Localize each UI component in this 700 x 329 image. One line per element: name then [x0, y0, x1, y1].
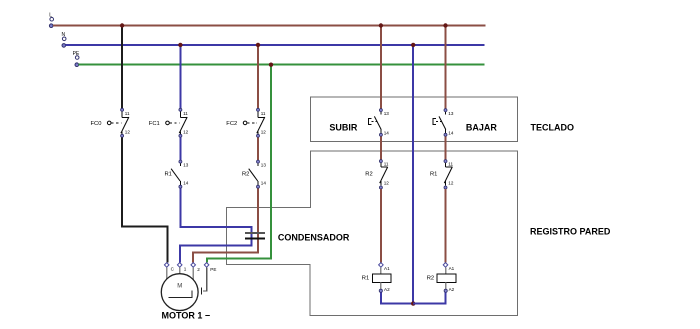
box TECLADO — [311, 97, 575, 141]
svg-text:11: 11 — [384, 161, 389, 166]
pin 11 contact R1 — [444, 160, 447, 163]
wire PE column to motor PE terminal — [207, 65, 271, 263]
svg-text:A1: A1 — [384, 266, 390, 271]
wire N return column — [412, 45, 414, 304]
svg-text:FC1: FC1 — [149, 121, 160, 127]
pin 12 contact R2 — [379, 186, 382, 189]
svg-text:R2: R2 — [427, 276, 434, 282]
svg-text:R2: R2 — [365, 172, 372, 178]
wire SUBIR to contact R2 (NC) — [380, 137, 382, 161]
svg-text:11: 11 — [261, 111, 266, 116]
node junction N / FC1 column — [178, 43, 182, 47]
svg-text:R1: R1 — [362, 276, 369, 282]
motor M1 — [161, 274, 210, 321]
wire N bus — [66, 44, 485, 46]
terminal PE — [73, 51, 80, 67]
pin 12 FC2 — [257, 134, 260, 137]
capacitor plates — [245, 232, 350, 242]
svg-text:12: 12 — [125, 129, 131, 134]
pushbutton BAJAR — [433, 109, 454, 137]
svg-text:13: 13 — [261, 163, 267, 168]
contact R1 (NO) — [165, 160, 189, 188]
limit switch FC2 — [226, 108, 266, 137]
svg-text:FC0: FC0 — [91, 121, 102, 127]
svg-text:R2: R2 — [242, 172, 249, 178]
coil R2 — [427, 263, 456, 293]
pin 11 contact R2 — [379, 160, 382, 163]
svg-text:12: 12 — [183, 129, 189, 134]
node junction L / FC0 column — [120, 23, 124, 27]
svg-text:CONDENSADOR: CONDENSADOR — [278, 232, 350, 242]
pin 12 contact R1 — [444, 186, 447, 189]
svg-text:14: 14 — [261, 180, 267, 185]
svg-text:A1: A1 — [449, 266, 455, 271]
wire BAJAR to contact R1 (NC) — [445, 137, 447, 161]
svg-text:R1: R1 — [165, 172, 172, 178]
limit switch FC1 — [149, 108, 189, 137]
wire L to pushbutton BAJAR — [445, 26, 447, 109]
wire coil R1 to neutral return — [381, 293, 413, 304]
contact R2 (NO) — [242, 160, 266, 188]
svg-text:TECLADO: TECLADO — [531, 122, 575, 132]
pin 14 R2 — [257, 185, 260, 188]
pin 12 FC0 — [121, 134, 124, 137]
motor M1 leads — [167, 267, 207, 294]
svg-text:14: 14 — [448, 130, 454, 135]
wire dark red column from N to FC2 — [257, 45, 259, 108]
svg-text:REGISTRO PARED: REGISTRO PARED — [530, 226, 611, 236]
svg-text:A2: A2 — [449, 287, 455, 292]
wire L bus — [53, 25, 486, 27]
node junction N / FC2 column — [256, 43, 260, 47]
svg-text:11: 11 — [125, 111, 130, 116]
svg-text:11: 11 — [183, 111, 188, 116]
motor M1 terminals — [164, 263, 216, 273]
svg-text:13: 13 — [384, 111, 390, 116]
wire L to pushbutton SUBIR — [380, 26, 382, 109]
pin 11 FC0 — [121, 108, 124, 111]
node junction L / SUBIR column — [379, 23, 383, 27]
svg-text:MOTOR 1 −: MOTOR 1 − — [162, 310, 211, 320]
pin 11 FC2 — [257, 108, 260, 111]
wire coil R2 to neutral return — [413, 293, 446, 304]
terminal L — [49, 13, 53, 28]
svg-text:12: 12 — [384, 180, 390, 185]
wire R1 to capacitor and motor terminal 1 — [180, 188, 251, 262]
wire black column from L to FC0 — [121, 26, 123, 109]
svg-text:SUBIR: SUBIR — [329, 123, 358, 133]
limit switch FC0 — [91, 108, 131, 137]
pin 12 FC1 — [179, 134, 182, 137]
svg-text:M: M — [177, 283, 182, 289]
pin 13 BAJAR — [444, 109, 447, 112]
wire FC0 to motor terminal C — [122, 138, 167, 263]
box REGISTRO PARED (with left notch around condensador) — [227, 151, 611, 316]
pin 13 R2 — [257, 160, 260, 163]
wire contact R2 to coil R1 — [380, 189, 382, 263]
pin 11 FC1 — [179, 108, 182, 111]
svg-text:BAJAR: BAJAR — [466, 123, 498, 133]
svg-text:PE: PE — [210, 267, 216, 272]
svg-text:FC2: FC2 — [226, 121, 237, 127]
pin 13 R1 — [179, 160, 182, 163]
svg-text:11: 11 — [448, 161, 453, 166]
pushbutton SUBIR — [368, 109, 389, 137]
svg-text:1: 1 — [184, 267, 187, 272]
wire blue column from N to FC1 — [179, 45, 181, 108]
svg-text:12: 12 — [448, 180, 454, 185]
node junction L / BAJAR column — [443, 23, 447, 27]
svg-text:R1: R1 — [430, 172, 437, 178]
wire PE bus — [79, 64, 485, 66]
svg-text:14: 14 — [384, 130, 390, 135]
svg-text:12: 12 — [261, 129, 267, 134]
wire R2 to motor terminal 2 — [193, 188, 258, 262]
terminal N — [62, 32, 67, 47]
pin 14 SUBIR — [379, 133, 382, 136]
contact R1 interlock (NC) — [430, 160, 454, 189]
pin 14 BAJAR — [444, 133, 447, 136]
node junction PE / green column — [269, 62, 273, 66]
svg-text:2: 2 — [197, 267, 200, 272]
pin 14 R1 — [179, 185, 182, 188]
svg-text:13: 13 — [448, 111, 454, 116]
coil R1 — [362, 263, 391, 293]
pin 13 SUBIR — [379, 109, 382, 112]
wire contact R1 to coil R2 — [445, 189, 447, 263]
wire FC2 to contact R2 — [257, 138, 259, 161]
contact R2 interlock (NC) — [365, 160, 389, 189]
node junction coils / return column — [411, 301, 415, 305]
svg-text:A2: A2 — [384, 287, 390, 292]
node junction N / return column — [411, 43, 415, 47]
wire FC1 to contact R1 — [179, 138, 181, 161]
svg-text:14: 14 — [183, 180, 189, 185]
svg-text:13: 13 — [183, 163, 189, 168]
